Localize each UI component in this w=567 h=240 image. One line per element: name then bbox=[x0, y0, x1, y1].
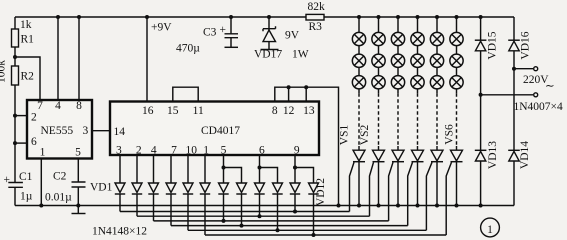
thyristor VS6 bbox=[451, 150, 463, 161]
wire: CD4017 pin 16 to rail bbox=[146, 17, 148, 102]
svg-text:9: 9 bbox=[294, 145, 300, 157]
capacitor C1 bbox=[8, 183, 23, 188]
diode VD10 bbox=[273, 183, 283, 193]
zener diode VD17 bbox=[267, 15, 271, 19]
gate wire VS4 bbox=[408, 162, 413, 225]
counter IC CD4017 U2 bbox=[110, 102, 319, 156]
svg-text:3: 3 bbox=[116, 145, 122, 157]
node: VD12 on bus bbox=[312, 233, 316, 237]
lamps column 4 (3 bulbs) bbox=[417, 17, 419, 93]
svg-text:5: 5 bbox=[221, 145, 227, 157]
node: VD11 on bus bbox=[293, 210, 297, 214]
wire: VD3 cathode to bus bbox=[153, 194, 155, 221]
wire: NE555 pin 1 to bottom rail bbox=[40, 159, 42, 206]
svg-text:C1: C1 bbox=[19, 171, 33, 183]
capacitor C2 bbox=[77, 159, 79, 206]
lamps column 1 (3 bulbs) bbox=[358, 17, 360, 93]
svg-text:1k: 1k bbox=[20, 19, 32, 31]
svg-text:CD4017: CD4017 bbox=[201, 125, 240, 137]
lamps column 5 (3 bulbs) bbox=[436, 17, 438, 93]
wire: pins 8,12,13 to ground rail bbox=[275, 87, 339, 205]
diode VD13 bbox=[475, 149, 487, 151]
thyristor VS5 bbox=[431, 150, 443, 161]
svg-text:6: 6 bbox=[31, 136, 37, 148]
gate wire VS2 bbox=[370, 162, 374, 216]
svg-text:VS1: VS1 bbox=[339, 125, 351, 146]
wire: NE555 pin 4 to rail bbox=[57, 17, 59, 100]
node: lamp column 1 on rail bbox=[357, 15, 361, 19]
svg-text:4: 4 bbox=[151, 145, 157, 157]
svg-text:1: 1 bbox=[203, 145, 209, 157]
node: lamp column 6 on rail bbox=[455, 15, 459, 19]
gate bus 1 bbox=[120, 211, 350, 213]
wire: CD4017 output to VD2 bbox=[136, 155, 138, 183]
wire: VD11 cathode to bus bbox=[294, 194, 296, 212]
diode VD9 bbox=[255, 183, 265, 193]
svg-text:2: 2 bbox=[31, 112, 37, 124]
wire: VD10 cathode to bus bbox=[277, 194, 279, 230]
node: VD10 on bus bbox=[276, 228, 280, 232]
node: VD9 on bus bbox=[258, 214, 262, 218]
diode VD8 bbox=[237, 183, 247, 193]
thyristor VS3 bbox=[392, 150, 404, 161]
svg-text:VD1: VD1 bbox=[90, 182, 113, 194]
gate wire VS1 bbox=[350, 162, 355, 211]
diode VD3 bbox=[149, 183, 159, 193]
svg-text:470µ: 470µ bbox=[176, 43, 200, 55]
220V AC terminals bbox=[514, 68, 533, 70]
svg-text:C2: C2 bbox=[53, 171, 67, 183]
wire: VD1 cathode to bus bbox=[119, 194, 121, 212]
thyristor VS4 bbox=[412, 150, 424, 161]
diode VD16 bbox=[513, 17, 515, 40]
svg-text:8: 8 bbox=[272, 105, 278, 117]
node: R1/R2 junction bbox=[13, 55, 17, 59]
wire: VD12 cathode to bus bbox=[313, 194, 315, 235]
svg-text:VD12: VD12 bbox=[315, 178, 327, 206]
svg-text:100k: 100k bbox=[0, 60, 8, 83]
gate wire VS6 bbox=[446, 162, 451, 235]
svg-text:VD17: VD17 bbox=[254, 49, 282, 61]
gate wire VS3 bbox=[389, 162, 393, 221]
wire: pin 6 stub bbox=[15, 142, 27, 144]
ground symbol below VD17 bbox=[261, 49, 279, 51]
svg-text:VS2: VS2 bbox=[359, 125, 371, 146]
gate bus 2 bbox=[137, 215, 370, 217]
svg-text:3: 3 bbox=[83, 125, 89, 137]
node: lamp column 4 on rail bbox=[416, 15, 420, 19]
gate bus 5 bbox=[188, 229, 426, 231]
diode VD5 bbox=[183, 183, 193, 193]
gate wire VS5 bbox=[426, 162, 432, 230]
svg-text:C3: C3 bbox=[203, 27, 217, 39]
diode VD6 bbox=[200, 183, 210, 193]
resistor R1 bbox=[12, 29, 19, 47]
dashed wire column 2 bbox=[378, 93, 380, 146]
wire: VD4 cathode to bus bbox=[170, 194, 172, 226]
svg-text:1µ: 1µ bbox=[20, 191, 33, 203]
wire: pins 15-11 reset loop bbox=[173, 87, 198, 101]
svg-text:8: 8 bbox=[76, 100, 82, 112]
wire: CD4017 output to VD5 bbox=[187, 155, 189, 183]
wire: NE555 pin 8 to rail bbox=[78, 17, 80, 100]
svg-text:R1: R1 bbox=[21, 34, 35, 46]
wire: output pin jumper to paired diode bbox=[260, 155, 278, 183]
svg-text:VD16: VD16 bbox=[520, 31, 532, 59]
svg-text:0.01µ: 0.01µ bbox=[45, 192, 72, 204]
diode VD11 bbox=[290, 183, 300, 193]
svg-text:NE555: NE555 bbox=[41, 125, 74, 137]
svg-text:1: 1 bbox=[40, 147, 46, 159]
wire: VD8 cathode to bus bbox=[241, 194, 243, 226]
diode VD7 bbox=[219, 183, 229, 193]
node: VD8 on bus bbox=[240, 224, 244, 228]
wire: output pin jumper to paired diode bbox=[224, 155, 242, 183]
wire: CD4017 output to VD4 bbox=[170, 155, 172, 183]
lamps column 2 (3 bulbs) bbox=[378, 17, 380, 93]
svg-text:10: 10 bbox=[186, 145, 198, 157]
dashed wire column 1 bbox=[358, 93, 360, 146]
diode VD4 bbox=[166, 183, 176, 193]
svg-text:VD13: VD13 bbox=[487, 141, 499, 169]
svg-text:14: 14 bbox=[114, 126, 126, 138]
lamps column 6 (3 bulbs) bbox=[456, 17, 458, 93]
wire: VD2 cathode to bus bbox=[136, 194, 138, 216]
thyristor VS2 bbox=[373, 150, 385, 161]
svg-text:16: 16 bbox=[142, 105, 154, 117]
svg-text:+9V: +9V bbox=[151, 22, 172, 34]
svg-text:1: 1 bbox=[487, 224, 493, 236]
wire: CD4017 output to VD1 bbox=[119, 155, 121, 183]
wire: NE555 pin 3 to CD4017 pin 14 bbox=[92, 130, 110, 132]
svg-text:VD15: VD15 bbox=[487, 31, 499, 59]
node: lamp column 5 on rail bbox=[435, 15, 439, 19]
wire: pin 2 stub bbox=[15, 115, 27, 117]
svg-text:9V: 9V bbox=[285, 30, 300, 42]
dashed wire column 6 bbox=[456, 93, 458, 146]
wire: VD7 cathode to bus bbox=[223, 194, 225, 221]
svg-text:4: 4 bbox=[55, 100, 61, 112]
wire: CD4017 output to VD6 bbox=[204, 155, 206, 183]
diode VD12 bbox=[309, 183, 319, 193]
resistor R2 bbox=[12, 66, 19, 85]
wire: left column bbox=[14, 17, 16, 206]
resistor R3 bbox=[306, 14, 324, 20]
svg-text:R3: R3 bbox=[309, 21, 323, 33]
dashed wire column 4 bbox=[417, 93, 419, 146]
gate bus 3 bbox=[154, 220, 389, 222]
node: VD7 on bus bbox=[222, 219, 226, 223]
diode VD2 bbox=[132, 183, 142, 193]
svg-text:12: 12 bbox=[283, 105, 295, 117]
gate bus 6 bbox=[205, 234, 446, 236]
gate bus 4 bbox=[171, 225, 408, 227]
svg-text:VS6: VS6 bbox=[444, 124, 456, 145]
ground symbol below C2 bbox=[77, 206, 79, 214]
svg-text:82k: 82k bbox=[308, 1, 326, 13]
node: lamp column 3 on rail bbox=[396, 15, 400, 19]
diode VD1 bbox=[115, 183, 125, 193]
op-amp timer NE555 U1 bbox=[27, 100, 92, 159]
svg-text:6: 6 bbox=[259, 145, 265, 157]
svg-text:1N4148×12: 1N4148×12 bbox=[92, 226, 147, 238]
ground symbol below C3 bbox=[225, 46, 239, 48]
lamps column 3 (3 bulbs) bbox=[397, 17, 399, 93]
svg-text:VD14: VD14 bbox=[519, 141, 531, 169]
wire: CD4017 output to VD3 bbox=[153, 155, 155, 183]
svg-text:+: + bbox=[220, 24, 227, 36]
wire: VD9 cathode to bus bbox=[259, 194, 261, 216]
svg-text:R2: R2 bbox=[21, 71, 35, 83]
wire: VD6 cathode to bus bbox=[204, 194, 206, 235]
svg-text:+: + bbox=[4, 174, 11, 186]
svg-text:1N4007×4: 1N4007×4 bbox=[514, 101, 564, 113]
wire: junction to NE555 pin 7 bbox=[15, 57, 40, 100]
thyristor VS1 bbox=[353, 150, 365, 161]
svg-text:7: 7 bbox=[37, 100, 43, 112]
svg-text:15: 15 bbox=[167, 105, 179, 117]
svg-text:13: 13 bbox=[303, 105, 315, 117]
dashed wire column 3 bbox=[397, 93, 399, 146]
capacitor C3 bbox=[229, 15, 233, 19]
svg-text:∼: ∼ bbox=[545, 81, 555, 93]
diode VD14 bbox=[508, 149, 520, 151]
svg-text:5: 5 bbox=[75, 147, 81, 159]
bottom rail bbox=[15, 205, 514, 207]
svg-text:11: 11 bbox=[193, 105, 204, 117]
node: lamp column 2 on rail bbox=[377, 15, 381, 19]
svg-text:2: 2 bbox=[136, 145, 142, 157]
top +9V rail bbox=[15, 16, 514, 18]
wire: VD5 cathode to bus bbox=[187, 194, 189, 230]
diode VD15 bbox=[479, 15, 483, 19]
svg-text:1W: 1W bbox=[292, 49, 309, 61]
wire: output pin jumper to paired diode bbox=[295, 155, 314, 183]
figure number 1 bbox=[481, 218, 500, 237]
svg-text:7: 7 bbox=[171, 145, 177, 157]
dashed wire column 5 bbox=[436, 93, 438, 146]
